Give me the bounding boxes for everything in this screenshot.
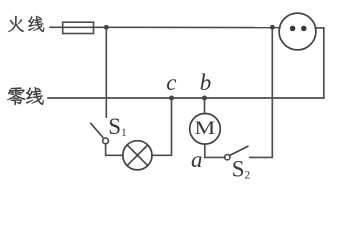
wire node b to motor [204,98,206,114]
wire socket right vertical down to neutral [323,28,325,98]
socket pin dot left [290,26,296,32]
svg-text:c: c [166,70,176,95]
wire through fuse to junction [63,26,107,28]
motor letter M [195,117,216,139]
svg-text:S2: S2 [232,156,251,181]
switch S1 pivot circle [103,138,109,144]
node b dot [202,96,207,101]
switch S2 pivot circle [225,155,230,160]
wire neutral horizontal [48,97,324,99]
label 火线 live wire [8,16,44,32]
socket junction dot [270,25,275,30]
svg-text:M: M [195,117,216,139]
switch S1 blade [90,123,103,138]
lamp L1 outline [123,141,152,170]
svg-text:a: a [191,147,203,172]
label 零线 neutral wire [7,87,44,105]
wire motor to S2 [205,144,225,157]
fuse F1 [63,22,94,33]
svg-text:b: b [200,70,212,95]
wire lamp to node c [152,98,172,155]
wire live from label to fuse [50,26,63,28]
lamp L1 cross [127,145,148,166]
svg-text:S1: S1 [108,114,127,139]
socket X1 outline [279,13,316,50]
socket pin dot right [301,26,307,32]
wire live branch vertical to S1 [105,27,107,117]
wire socket right lead [315,27,324,29]
fuse junction dot [104,25,109,30]
node c dot [169,96,174,101]
motor U1 outline [190,114,221,145]
switch S2 blade [230,146,249,155]
wire S2 to live branch vertical [250,27,272,157]
wire live horizontal to socket [106,26,280,28]
wire S1 to lamp [106,144,123,155]
